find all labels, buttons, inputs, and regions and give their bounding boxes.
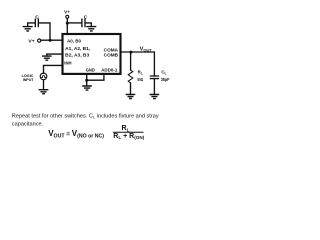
svg-text:GND: GND (86, 67, 96, 72)
svg-text:C: C (35, 14, 39, 20)
svg-text:50Ω: 50Ω (137, 77, 143, 82)
svg-text:CL: CL (161, 70, 166, 76)
svg-text:A0, B0: A0, B0 (67, 39, 81, 44)
svg-text:Repeat test for other switches: Repeat test for other switches. CL inclu… (12, 114, 159, 120)
svg-text:capacitance.: capacitance. (12, 121, 44, 127)
svg-text:ADD0-1: ADD0-1 (101, 67, 118, 72)
svg-text:VOUT = V(NO or NC): VOUT = V(NO or NC) (48, 129, 104, 140)
svg-text:COMB: COMB (104, 52, 119, 57)
svg-text:C: C (84, 15, 88, 21)
svg-text:B2, A3, B3: B2, A3, B3 (65, 53, 89, 58)
svg-text:RL + R(ON): RL + R(ON) (113, 133, 144, 140)
svg-text:RL: RL (138, 70, 143, 76)
svg-text:VOUT: VOUT (140, 46, 153, 52)
svg-text:INH: INH (64, 60, 72, 65)
svg-text:RL: RL (122, 125, 130, 132)
svg-text:INPUT: INPUT (23, 77, 34, 82)
svg-text:V+: V+ (64, 9, 70, 14)
svg-text:A1, A2, B1,: A1, A2, B1, (65, 46, 90, 51)
svg-text:V+: V+ (28, 38, 35, 43)
svg-text:35pF: 35pF (161, 77, 170, 82)
